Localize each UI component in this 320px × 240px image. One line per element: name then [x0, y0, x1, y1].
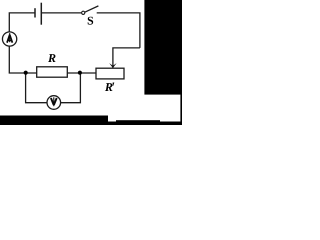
battery B1 [35, 3, 41, 25]
wire voltmeter branch right [61, 73, 81, 103]
wire right connector to wiper [113, 48, 140, 68]
wire top-left segment [9, 13, 35, 32]
node junction left [24, 71, 28, 75]
ammeter needle glyph [7, 33, 12, 43]
wire ammeter to middle wire [9, 47, 36, 74]
ammeter A1 [2, 32, 16, 46]
resistor R [37, 67, 68, 77]
voltmeter V1 [47, 96, 61, 110]
wire switch to top-right corner and down [97, 13, 140, 48]
label R' [105, 83, 114, 91]
label R [48, 54, 56, 62]
rheostat R' [96, 68, 124, 79]
switch S [82, 6, 99, 15]
wire battery to switch [41, 12, 81, 14]
wire R to rheostat [67, 72, 96, 74]
wire voltmeter branch left [26, 73, 47, 103]
voltmeter needle glyph [51, 97, 57, 106]
label S [88, 17, 93, 25]
node junction right [78, 71, 82, 75]
rheostat wiper arrowhead [109, 63, 116, 68]
